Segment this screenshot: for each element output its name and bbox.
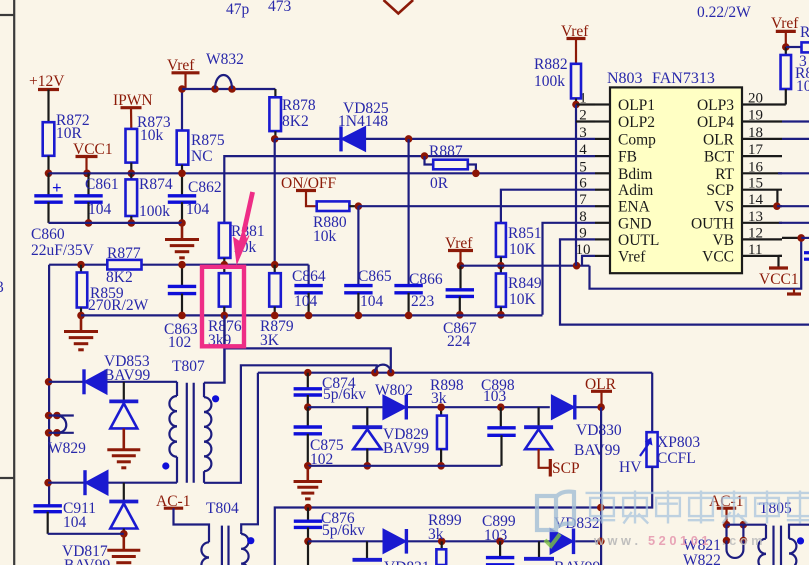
node junction Vref/R8xx — [782, 43, 790, 51]
svg-text:104: 104 — [360, 293, 384, 310]
svg-text:5p/6kv: 5p/6kv — [322, 522, 365, 539]
svg-text:R874: R874 — [139, 176, 173, 193]
svg-text:NC: NC — [191, 148, 213, 165]
phase dot T807 primary — [162, 462, 169, 469]
svg-text:OLP4: OLP4 — [697, 114, 734, 131]
pin 3 Comp — [595, 138, 610, 140]
node junction R887/Bdim — [472, 170, 480, 178]
power SCP — [539, 449, 551, 468]
svg-text:VB: VB — [712, 232, 734, 249]
svg-text:10R: 10R — [56, 125, 83, 142]
svg-text:FAN7313: FAN7313 — [652, 70, 715, 87]
capacitor C864 104 — [308, 265, 310, 286]
wire R876 branch to W802 right — [223, 315, 225, 348]
node junction R872/C860 — [45, 170, 53, 178]
svg-text:270R/2W: 270R/2W — [88, 297, 149, 314]
svg-text:0.22/2W: 0.22/2W — [697, 4, 751, 21]
svg-text:224: 224 — [447, 333, 471, 350]
wire bus B y=407.2 — [308, 406, 383, 408]
svg-text:VCC: VCC — [702, 248, 734, 265]
wire pin15 SCP tie to VS — [776, 190, 778, 207]
svg-text:ENA: ENA — [618, 199, 651, 216]
resistor R887 0R — [425, 156, 434, 164]
svg-text:C864: C864 — [292, 268, 326, 285]
svg-text:RT: RT — [715, 166, 734, 183]
connector XP803 CCFL — [647, 432, 658, 467]
svg-text:13: 13 — [748, 209, 763, 225]
T805 secondary winding — [789, 525, 809, 539]
svg-text:W822: W822 — [683, 552, 721, 565]
svg-text:BAV99: BAV99 — [64, 557, 110, 565]
svg-text:103: 103 — [483, 388, 507, 405]
T805 core — [772, 526, 774, 565]
pin 1 OLP1 — [595, 103, 610, 105]
diode VD817 (vertical half) — [123, 483, 125, 501]
svg-text:5: 5 — [579, 159, 587, 175]
node junction C863 bottom — [178, 312, 186, 320]
svg-text:4: 4 — [579, 142, 587, 158]
jumper W821 — [723, 521, 731, 529]
wire sense rail y=265 — [49, 264, 309, 266]
diode VD832 (vertical half, cut) — [538, 541, 540, 558]
node junction C866 bottom — [405, 312, 413, 320]
jumper W822 — [723, 537, 731, 545]
ground symbol below C875 — [306, 466, 309, 481]
svg-text:3k: 3k — [428, 526, 444, 543]
power bar fragment (right edge) — [793, 289, 795, 294]
svg-text:3K: 3K — [260, 332, 280, 349]
node junction R898 top — [437, 403, 445, 411]
ground symbol below VD817 — [123, 534, 126, 550]
wire pin12 VB — [801, 237, 809, 239]
wire caps bottom rail y=223 — [49, 222, 183, 224]
T807 core — [186, 383, 188, 483]
svg-text:Bdim: Bdim — [618, 166, 652, 183]
watermark chinese characters — [586, 491, 619, 524]
T807 secondary winding — [203, 383, 205, 398]
diode VD831 (horizontal half) — [405, 529, 408, 554]
node junction R899 top — [438, 538, 446, 546]
pin 12 VB — [742, 238, 782, 240]
capacitor C862 104 — [181, 173, 183, 195]
resistor R8xx horizontal (cut at edge) — [786, 46, 802, 48]
svg-text:BAV99: BAV99 — [574, 442, 620, 459]
resistor R881 10k — [219, 223, 231, 258]
node junction C864 bottom — [305, 312, 313, 320]
svg-text:Comp: Comp — [618, 131, 656, 148]
svg-text:100k: 100k — [534, 73, 565, 90]
svg-text:3: 3 — [0, 279, 4, 296]
pin 5 Bdim — [595, 172, 610, 174]
capacitor C867 224 — [459, 266, 461, 290]
svg-text:OUTH: OUTH — [691, 215, 734, 232]
resistor R876 3k9 — [223, 265, 225, 274]
wire VD853 row y=382 — [49, 381, 177, 383]
svg-text:1N4148: 1N4148 — [338, 113, 388, 130]
resistor R882 100k — [571, 64, 581, 99]
svg-text:C861: C861 — [85, 176, 119, 193]
svg-text:102: 102 — [168, 334, 191, 351]
wire Vref net y=266 — [461, 265, 590, 267]
node junction R898 bottom — [437, 462, 445, 470]
svg-text:104: 104 — [186, 201, 210, 218]
resistor R859 270R/2W — [80, 265, 82, 273]
pin 13 OUTH — [742, 222, 782, 224]
node junction C898 top — [497, 403, 505, 411]
wire T807 secondary top to R876 — [204, 315, 225, 382]
sheet border frame — [13, 0, 15, 565]
node junction C876 bottom — [304, 538, 312, 546]
svg-text:R849: R849 — [508, 275, 542, 292]
wire bus D y=507.5 — [275, 508, 601, 565]
svg-text:VD831: VD831 — [384, 559, 430, 565]
svg-text:14: 14 — [748, 192, 764, 208]
svg-text:T807: T807 — [172, 358, 205, 375]
svg-text:C862: C862 — [188, 179, 222, 196]
T804 core — [221, 526, 223, 565]
wire T807 secondary bottom to W802 left — [204, 365, 377, 483]
node junction Vref/C867 — [457, 262, 465, 270]
node junction VD817 row — [44, 479, 52, 487]
svg-text:C860: C860 — [31, 226, 65, 243]
node junction R878/Comp — [271, 135, 279, 143]
capacitor C875 102 — [307, 407, 309, 427]
wire main rail y=173 — [49, 172, 596, 174]
T804 secondary winding — [240, 531, 242, 534]
node junction C875 bottom / ground — [304, 462, 312, 470]
capacitor C876 5p/6kv — [307, 508, 309, 522]
svg-text:3: 3 — [579, 125, 587, 141]
wire W832 row y=89 — [182, 88, 275, 90]
node junction R880/ENA/C865 — [355, 202, 363, 210]
svg-text:17: 17 — [748, 142, 764, 158]
svg-text:XP803: XP803 — [657, 434, 700, 451]
svg-text:15: 15 — [748, 176, 763, 192]
diode VD825 1N4148 — [339, 126, 342, 151]
pin 8 GND — [595, 222, 610, 224]
IC N803 FAN7313 — [610, 87, 742, 273]
svg-text:HV: HV — [619, 459, 642, 476]
diode VD829 (vertical half) — [366, 407, 368, 427]
wire OLR column — [600, 407, 602, 565]
wire GND net pin8 — [543, 223, 596, 315]
svg-text:6: 6 — [579, 176, 587, 192]
svg-text:CCFL: CCFL — [657, 450, 696, 467]
node junction Vref/W832 — [178, 85, 186, 93]
svg-text:10: 10 — [576, 242, 591, 258]
power symbol arrow (cut) — [384, 0, 414, 14]
svg-text:VCC1: VCC1 — [759, 271, 799, 288]
svg-text:5 2 0 1 0 1: 5 2 0 1 0 1 — [648, 533, 708, 548]
svg-text:. c o m: . c o m — [722, 533, 763, 548]
pin 15 SCP — [742, 189, 782, 191]
capacitor C874 5p/6kv — [307, 373, 309, 389]
wire Comp net pin3 — [275, 138, 341, 140]
pin 20 OLP3 — [742, 103, 786, 105]
pin 9 OUTL — [595, 238, 610, 240]
diode VD817 (horizontal half) — [83, 470, 86, 495]
svg-text:OLR: OLR — [703, 131, 735, 148]
diode VD830 (vertical half) — [537, 407, 539, 427]
svg-text:BCT: BCT — [704, 149, 735, 166]
node junction C861 bottom — [85, 219, 93, 227]
svg-text:N803: N803 — [607, 70, 643, 87]
svg-text:473: 473 — [268, 0, 292, 15]
resistor R872 — [43, 122, 55, 156]
svg-text:C866: C866 — [409, 271, 443, 288]
node junction R881/R876 — [221, 261, 229, 269]
capacitor C863 102 — [181, 265, 183, 287]
svg-text:8: 8 — [579, 209, 587, 225]
diode VD853 (horizontal half) — [82, 369, 85, 394]
svg-text:Adim: Adim — [618, 182, 653, 199]
node junction C876 top — [304, 504, 312, 512]
diode VD853 (vertical half) — [123, 382, 125, 401]
node junction VB — [782, 237, 801, 239]
pin 16 RT — [742, 172, 782, 174]
svg-text:Vref: Vref — [618, 248, 646, 265]
wire T804 secondary to bus A — [241, 373, 258, 532]
svg-text:SCP: SCP — [706, 182, 734, 199]
wire XP803 bottom — [601, 467, 652, 508]
pin 11 VCC — [742, 255, 782, 257]
resistor R8xx 100k (cut) — [785, 47, 787, 55]
pin 17 BCT — [742, 155, 782, 157]
svg-text:+12V: +12V — [29, 73, 65, 90]
svg-text:W829: W829 — [48, 440, 86, 457]
wire VB underpass net — [590, 238, 802, 289]
resistor R879 3K — [274, 139, 276, 265]
svg-text:8K2: 8K2 — [106, 269, 133, 286]
svg-text:10k: 10k — [140, 127, 164, 144]
svg-text:3: 3 — [799, 53, 807, 70]
svg-text:22uF/35V: 22uF/35V — [31, 242, 95, 259]
svg-text:10: 10 — [796, 78, 809, 95]
svg-text:OUTL: OUTL — [618, 232, 659, 249]
pin 19 OLP4 — [742, 120, 782, 122]
wire Adim net pin6 — [501, 190, 595, 223]
svg-text:11: 11 — [748, 242, 762, 258]
ground symbol below C862 — [181, 223, 184, 239]
svg-text:OLP1: OLP1 — [618, 97, 655, 114]
wire Vref pin10 jog — [582, 256, 595, 266]
node junction FB/R887 — [421, 152, 429, 160]
node junction R874 bottom — [128, 219, 136, 227]
svg-text:19: 19 — [748, 108, 763, 124]
wire pin19 OLP4 — [782, 120, 809, 122]
resistor R878 8K2 — [274, 89, 276, 97]
svg-text:R875: R875 — [191, 132, 225, 149]
capacitor C860 electrolytic 22uF/35V — [47, 173, 49, 195]
pin 7 ENA — [595, 205, 610, 207]
svg-text:R851: R851 — [508, 225, 542, 242]
node junction R875 bottom — [178, 170, 186, 178]
resistor R875 NC — [181, 89, 183, 131]
wire pin13 OUTH — [779, 222, 809, 224]
svg-text:Vref: Vref — [771, 15, 799, 32]
svg-text:104: 104 — [63, 514, 87, 531]
svg-text:OLP3: OLP3 — [697, 97, 734, 114]
node junction C865 bottom — [355, 312, 363, 320]
wire VD817 row y=483 — [48, 482, 177, 484]
svg-text:18: 18 — [748, 125, 763, 141]
svg-text:9: 9 — [579, 225, 587, 241]
svg-text:R878: R878 — [282, 97, 316, 114]
wire pin14 VS — [777, 205, 809, 207]
node junction C863 top — [178, 261, 186, 269]
wire OLP2 tie — [575, 105, 577, 266]
node junction R859 bottom / ground bus end — [77, 312, 85, 320]
svg-text:223: 223 — [411, 293, 435, 310]
jumper W829 — [45, 412, 53, 420]
node junction R879 bottom — [271, 312, 279, 320]
node junction bus D / OLR column — [597, 504, 605, 512]
svg-text:R887: R887 — [429, 143, 463, 160]
svg-text:12: 12 — [748, 225, 763, 241]
wire ENA net pin7 — [358, 205, 595, 207]
diode VD832 (horizontal half) — [572, 529, 575, 555]
node junction bus E / OLR column — [597, 538, 605, 546]
svg-text:5p/6kv: 5p/6kv — [323, 386, 366, 403]
highlight arrow — [244, 192, 253, 232]
svg-text:BAV99: BAV99 — [554, 559, 600, 565]
resistor R873 — [126, 129, 138, 163]
pin 6 Adim — [595, 189, 610, 191]
node junction Comp/C866 — [405, 135, 413, 143]
ground symbol below R859 — [80, 315, 83, 330]
svg-text:w w w .: w w w . — [593, 533, 638, 548]
svg-text:BAV99: BAV99 — [383, 440, 429, 457]
svg-text:104: 104 — [294, 293, 318, 310]
capacitor C866 223 — [408, 139, 410, 286]
svg-text:100k: 100k — [139, 203, 170, 220]
node junction R876 bottom — [221, 312, 229, 320]
wire bus E y=541.3 — [308, 540, 383, 542]
node junction VCC1/C861 — [83, 170, 91, 178]
node junction C867 bottom — [456, 311, 464, 319]
resistor R898 3k — [440, 407, 442, 415]
pin 10 Vref — [595, 255, 610, 257]
svg-text:VS: VS — [714, 199, 734, 216]
power VCC1 (below pin11) — [779, 255, 783, 257]
wire bus A corner to XP803 — [651, 373, 653, 433]
capacitor C865 104 — [357, 206, 359, 285]
resistor R874 — [130, 173, 132, 179]
svg-text:SCP: SCP — [552, 460, 580, 477]
node junction VD817/C911/ground — [120, 530, 128, 538]
node junction OLR — [597, 403, 605, 411]
pin 2 OLP2 — [595, 120, 610, 122]
svg-text:10k: 10k — [313, 228, 337, 245]
node junction VS/SCP — [773, 202, 781, 210]
node junction R849 bottom — [497, 311, 505, 319]
svg-text:103: 103 — [484, 527, 508, 544]
wire pin16 RT — [778, 172, 809, 174]
pin 18 OLR — [742, 138, 782, 140]
wire ground bus y=315 — [81, 314, 543, 316]
svg-text:8K2: 8K2 — [282, 113, 309, 130]
node junction Vref column — [573, 262, 581, 270]
wire pin18 OLR — [782, 138, 809, 140]
wire bus C y=465.8 — [308, 465, 501, 467]
node junction R882/OLP1 — [572, 101, 580, 109]
svg-text:R882: R882 — [534, 56, 568, 73]
phase dot T804 secondary — [247, 537, 254, 544]
wire bus A y=372.7 — [258, 372, 652, 374]
svg-text:104: 104 — [88, 201, 112, 218]
node junction C874/C875 bus B — [304, 403, 312, 411]
capacitor C861 104 — [87, 173, 89, 195]
node junction R873/R874 — [128, 170, 136, 178]
svg-text:0R: 0R — [430, 175, 449, 192]
pin 14 VS — [742, 205, 782, 207]
pin 4 FB — [595, 155, 610, 157]
svg-text:R: R — [800, 24, 809, 41]
svg-text:FB: FB — [618, 149, 637, 166]
svg-text:T804: T804 — [206, 500, 239, 517]
svg-text:R877: R877 — [107, 245, 141, 262]
ground symbol below VD853 — [123, 429, 126, 450]
svg-text:BAV99: BAV99 — [104, 367, 150, 384]
svg-text:OLP2: OLP2 — [618, 114, 655, 131]
svg-text:16: 16 — [748, 159, 764, 175]
resistor R851 10K — [496, 223, 506, 257]
node junction R877/R859 — [77, 261, 85, 269]
node junction VD829 bottom — [364, 462, 372, 470]
resistor R877 8K2 — [107, 260, 141, 270]
node junction VD853 row — [45, 378, 53, 386]
watermark logo book — [537, 492, 574, 530]
svg-text:20: 20 — [748, 91, 763, 107]
diode VD830 (horizontal half) — [573, 395, 576, 420]
svg-text:47p: 47p — [226, 1, 250, 18]
node junction R879 top — [271, 261, 279, 269]
node junction C862 bottom / ground — [178, 219, 186, 227]
svg-text:7: 7 — [579, 192, 587, 208]
phase dot T805 secondary — [797, 537, 804, 544]
diode VD831 (vertical half, cut) — [366, 541, 368, 558]
svg-text:W832: W832 — [206, 51, 244, 68]
jumper W802 — [371, 369, 379, 377]
svg-text:C865: C865 — [358, 268, 392, 285]
svg-text:GND: GND — [618, 215, 652, 232]
node junction C899 top — [496, 538, 504, 546]
svg-text:VD830: VD830 — [576, 422, 622, 439]
resistor R849 10K — [500, 266, 502, 274]
node junction R851/R849/Vref — [497, 262, 505, 270]
phase dot T807 secondary — [212, 395, 219, 402]
capacitor bootstrap (cut at edge) — [804, 251, 809, 254]
resistor R880 10k — [317, 201, 350, 211]
svg-text:10K: 10K — [509, 241, 537, 258]
capacitor C911 104 — [34, 504, 62, 507]
highlight box around R876 — [202, 267, 244, 347]
wire FB net pin4 — [224, 156, 595, 223]
diode VD829 (horizontal half) — [405, 395, 408, 420]
svg-text:3k: 3k — [431, 390, 447, 407]
wire OUTL net pin9 — [560, 239, 809, 324]
node junction C874 top — [304, 369, 312, 377]
wire left rail x=48 — [48, 382, 50, 506]
svg-text:10K: 10K — [509, 291, 537, 308]
